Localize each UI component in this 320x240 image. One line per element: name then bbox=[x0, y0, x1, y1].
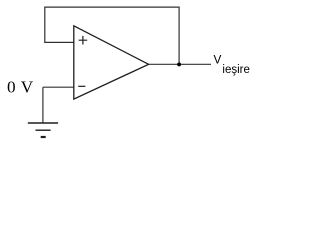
svg-text:V: V bbox=[214, 53, 222, 67]
wire feedback loop (output to + input) bbox=[45, 7, 179, 64]
wire - input bbox=[43, 86, 74, 88]
wire + input bbox=[44, 41, 74, 43]
svg-text:ieşire: ieşire bbox=[222, 64, 249, 76]
wire output bbox=[149, 63, 211, 65]
op-amp + input marking bbox=[79, 36, 88, 45]
svg-text:0: 0 bbox=[7, 78, 16, 97]
op-amp - input marking bbox=[78, 85, 85, 87]
ground bbox=[28, 123, 58, 137]
node junction dot bbox=[177, 62, 181, 66]
op-amp U1 bbox=[74, 26, 149, 99]
wire ground stem bbox=[42, 87, 44, 123]
svg-text:V: V bbox=[21, 78, 34, 97]
